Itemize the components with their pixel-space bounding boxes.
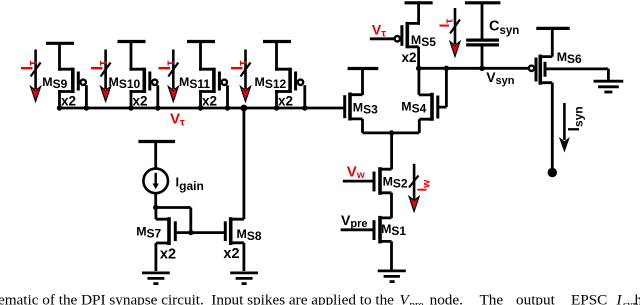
svg-text:node.: node.: [430, 292, 463, 305]
transistor MS4: [419, 68, 447, 133]
transistor MS9: [46, 43, 86, 108]
capacitor Csyn: [465, 3, 501, 69]
svg-text:x2: x2: [202, 93, 217, 108]
caption text: [0, 292, 640, 305]
svg-text:MS7: MS7: [136, 224, 161, 240]
ground MS7: [142, 273, 170, 284]
junction dots Vtau rail: [57, 105, 308, 112]
current arrow Itau MS5: [450, 8, 460, 57]
transistor MS3: [345, 69, 379, 133]
svg-text:x2: x2: [402, 50, 417, 65]
svg-text:MS9: MS9: [42, 75, 67, 91]
node mirror dots: [153, 205, 158, 210]
svg-text:MS4: MS4: [401, 99, 426, 115]
svg-text:x2: x2: [133, 93, 148, 108]
svg-text:output: output: [516, 292, 556, 305]
svg-text:x2: x2: [223, 246, 239, 262]
wire mirror gates MS7-MS8: [175, 231, 225, 234]
svg-text:MS3: MS3: [353, 101, 378, 117]
svg-text:The: The: [480, 292, 504, 305]
svg-text:MS11: MS11: [179, 75, 210, 91]
svg-text:x2: x2: [160, 247, 176, 263]
transistor MS8: [225, 217, 244, 271]
wire MS3-MS4 common source: [363, 131, 420, 134]
svg-text:MS10: MS10: [109, 75, 141, 91]
transistor MS12: [263, 42, 305, 109]
transistor MS2: [343, 167, 392, 218]
svg-text:MS12: MS12: [255, 75, 287, 91]
wire Igain to MS7 drain / mirror gate: [156, 208, 191, 233]
wire Vtau rail: [60, 107, 345, 110]
wire Vsyn node: [419, 67, 529, 70]
current arrow Itau MS11: [168, 50, 178, 102]
svg-text:MS6: MS6: [557, 50, 582, 66]
svg-text:x2: x2: [61, 93, 76, 108]
transistor MS1: [341, 216, 392, 271]
ground MS1: [378, 271, 406, 282]
junction dots Vsyn and diffpair: [389, 66, 485, 136]
ground MS6 bulk: [594, 81, 624, 92]
current source Igain: [138, 142, 175, 208]
svg-text:MS8: MS8: [237, 227, 262, 243]
svg-text:ematic of the DPI synapse circ: ematic of the DPI synapse circuit.: [0, 292, 204, 305]
svg-text:Input spikes are applied to th: Input spikes are applied to the: [211, 292, 394, 305]
svg-text:pre: pre: [410, 299, 424, 305]
svg-text:MS2: MS2: [383, 174, 408, 190]
svg-text:I: I: [616, 292, 623, 305]
transistor MS10: [118, 42, 158, 109]
current arrow Itau MS9: [31, 50, 41, 102]
current arrow Itau MS10: [101, 50, 111, 102]
wire MS8 drain riser: [242, 108, 245, 219]
current arrow Itau MS12: [241, 50, 251, 102]
transistor MS7: [156, 208, 175, 272]
svg-text:has a: has a: [635, 292, 640, 305]
transistor MS5: [370, 3, 433, 69]
wire diffpair tail down to MS2: [390, 133, 393, 169]
current arrow Iw MS2: [409, 164, 419, 212]
transistor MS11: [187, 42, 228, 109]
svg-text:EPSC: EPSC: [571, 292, 607, 305]
transistor MS6: [529, 28, 609, 170]
node output dot: [548, 168, 557, 177]
svg-text:MS5: MS5: [411, 33, 436, 49]
svg-text:MS1: MS1: [381, 222, 406, 238]
ground MS8: [230, 273, 258, 284]
svg-text:x2: x2: [278, 93, 293, 108]
current arrow Isyn MS6: [559, 103, 570, 153]
